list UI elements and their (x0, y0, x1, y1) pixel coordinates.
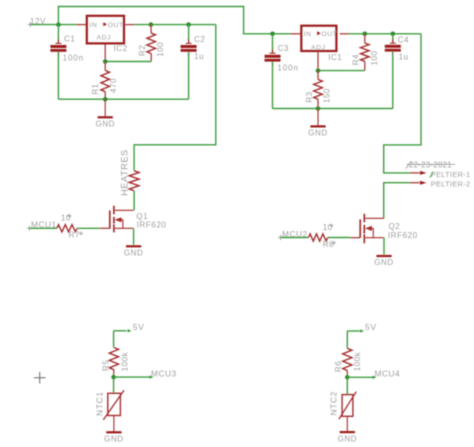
svg-text:HEATRES: HEATRES (119, 149, 129, 196)
svg-text:R7: R7 (69, 231, 80, 240)
wire Q2 drain to PELTIER-2 (384, 183, 410, 219)
svg-text:C3: C3 (278, 44, 289, 53)
svg-text:1u: 1u (399, 52, 409, 61)
voltage regulator IC1 (301, 26, 342, 62)
capacitor C3 (265, 34, 299, 109)
wire ADJ pin (104, 44, 106, 61)
wire OUT rail of IC2 (77, 24, 216, 26)
wire bottom rail circuit1 (58, 98, 188, 100)
resistor R7 (57, 214, 83, 240)
junction at C4 top (391, 32, 396, 37)
svg-text:150: 150 (323, 88, 332, 103)
svg-text:NTC1: NTC1 (95, 391, 105, 416)
svg-text:C4: C4 (398, 35, 409, 44)
svg-text:Q1: Q1 (136, 212, 148, 221)
node 5V supply left (114, 322, 145, 333)
capacitor C2 (181, 25, 206, 100)
junction at R4 top (363, 32, 368, 37)
junction at C2 top (186, 22, 191, 27)
svg-text:GND: GND (374, 258, 393, 267)
svg-text:OUT: OUT (321, 31, 337, 38)
svg-text:5V: 5V (133, 322, 145, 332)
wire 12V rail (30, 24, 76, 26)
wire 5V to R6 (346, 331, 348, 348)
junction at C3 top (270, 32, 275, 37)
wire 12V bypass to second regulator (58, 7, 290, 34)
wire OUT rail of IC1 (291, 33, 422, 35)
node PELTIER-1 pin (410, 170, 470, 179)
svg-text:R8: R8 (323, 240, 334, 249)
svg-text:MCU4: MCU4 (375, 369, 401, 379)
transistor Q2 (350, 214, 417, 244)
wire OUT1 to heater resistor (134, 25, 216, 171)
svg-text:C1: C1 (64, 34, 75, 43)
node MCU2 net label (278, 229, 308, 240)
svg-text:Q2: Q2 (389, 222, 401, 231)
wire R2 bottom to ADJ (105, 61, 151, 63)
ground GND3 (124, 246, 143, 257)
resistor R4 (352, 34, 379, 71)
node 12V net label (28, 17, 46, 27)
svg-text:22-23-2021: 22-23-2021 (409, 160, 452, 169)
wire R8 to Q2 gate (328, 237, 351, 239)
ground GND2 (308, 109, 327, 138)
svg-text:GND: GND (104, 435, 123, 444)
wire MCU1 to R7 (29, 227, 56, 229)
resistor R2 (138, 25, 165, 62)
junction at ADJ node (103, 59, 108, 64)
wire 5V to R5 (113, 331, 115, 348)
ground GND4 (374, 256, 393, 267)
resistor R5 (102, 348, 130, 378)
svg-text:R6: R6 (334, 361, 343, 372)
resistor HEATRES (119, 149, 139, 196)
svg-text:C2: C2 (194, 35, 205, 44)
junction at R2 top (149, 22, 154, 27)
svg-text:PELTIER-2: PELTIER-2 (431, 179, 471, 188)
svg-text:IC2: IC2 (114, 44, 128, 53)
svg-text:GND: GND (124, 249, 143, 258)
junction at R1 bottom (103, 97, 108, 102)
voltage regulator IC2 (87, 16, 128, 53)
svg-text:100: 100 (370, 51, 379, 66)
junction at divider left (111, 375, 116, 380)
svg-text:GND: GND (308, 129, 327, 138)
wire MCU2 to R8 (281, 237, 309, 239)
wire Q1 source to ground (133, 228, 135, 245)
ground GND6 (338, 432, 357, 443)
wire OUT2 to PELTIER-1 (384, 34, 421, 173)
svg-text:IRF620: IRF620 (137, 221, 167, 230)
svg-text:100n: 100n (277, 63, 298, 72)
svg-text:R5: R5 (102, 360, 111, 371)
svg-text:OUT: OUT (108, 22, 124, 29)
capacitor C1 (50, 25, 84, 100)
svg-text:IN: IN (304, 31, 312, 38)
svg-text:ADJ: ADJ (97, 34, 112, 41)
wire R4 bottom to ADJ2 (318, 70, 365, 72)
svg-text:ADJ: ADJ (311, 44, 326, 51)
node 5V supply right (347, 322, 376, 333)
capacitor C4 (385, 34, 409, 109)
svg-text:1u: 1u (194, 52, 204, 61)
node PELTIER-2 pin (410, 172, 470, 189)
svg-text:GND: GND (95, 120, 114, 129)
node MCU4 net label (347, 369, 400, 379)
svg-text:NTC2: NTC2 (328, 391, 338, 416)
svg-text:PELTIER-1: PELTIER-1 (431, 170, 471, 179)
wire Q2 source to ground (383, 238, 385, 255)
wire bottom rail circuit2 (273, 108, 393, 110)
thermistor NTC1 (95, 377, 124, 431)
wire R7 to Q1 gate (77, 227, 100, 229)
svg-text:GND: GND (338, 434, 357, 443)
wire HEATRES to Q1 drain (133, 191, 135, 211)
svg-text:5V: 5V (365, 322, 377, 332)
svg-text:IRF620: IRF620 (388, 231, 418, 240)
junction at C1 top (56, 22, 61, 27)
svg-text:IC1: IC1 (328, 53, 342, 62)
ground GND1 (95, 99, 114, 128)
text annotation 22-23-2021 (406, 160, 455, 169)
transistor Q1 (100, 206, 166, 233)
junction at R3 bottom (316, 106, 321, 111)
svg-text:R4: R4 (352, 54, 361, 65)
resistor R6 (334, 348, 362, 377)
svg-text:100: 100 (156, 42, 165, 57)
junction at ADJ2 node (316, 68, 321, 73)
svg-text:100n: 100n (63, 54, 84, 63)
svg-text:470: 470 (109, 78, 118, 93)
svg-text:100k: 100k (120, 351, 129, 371)
svg-text:100k: 100k (353, 351, 362, 371)
node sheet origin cross (34, 372, 46, 384)
svg-text:IN: IN (89, 22, 97, 29)
svg-text:MCU3: MCU3 (151, 368, 177, 378)
svg-text:R1: R1 (91, 83, 100, 94)
node MCU1 net label (27, 220, 57, 231)
resistor R3 (305, 71, 332, 109)
svg-text:R3: R3 (305, 91, 314, 102)
ground GND5 (104, 432, 123, 443)
thermistor NTC2 (328, 377, 356, 431)
junction at divider right (345, 375, 350, 380)
node MCU3 net label (114, 368, 177, 378)
resistor R1 (91, 62, 118, 100)
wire ADJ2 pin (317, 52, 319, 70)
svg-text:R2: R2 (138, 45, 147, 56)
resistor R8 (309, 223, 337, 249)
